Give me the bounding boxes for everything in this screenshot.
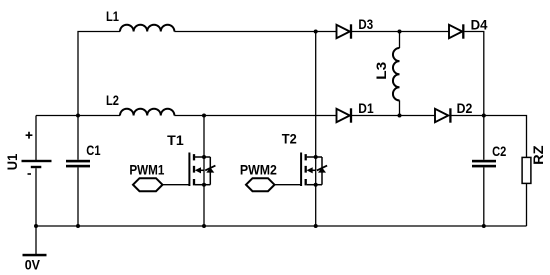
svg-text:D2: D2: [457, 101, 473, 116]
node T2 drain on top rail: [314, 30, 318, 34]
diode D2: [435, 101, 473, 123]
port PWM2: [240, 163, 301, 192]
svg-text:PWM1: PWM1: [129, 163, 164, 178]
svg-text:T1: T1: [167, 133, 184, 148]
wire top-left from L1 down to input node: [78, 32, 120, 116]
node output junction: [482, 114, 486, 118]
node bottom C1: [76, 224, 80, 228]
capacitor C2: [472, 116, 507, 227]
svg-text:U1: U1: [5, 153, 20, 170]
port PWM1: [129, 163, 189, 192]
inductor L3: [374, 32, 400, 116]
wire battery to input node: [36, 115, 78, 117]
wire input node to L2: [78, 115, 120, 117]
svg-text:L1: L1: [106, 9, 119, 24]
svg-text:L2: L2: [106, 93, 119, 108]
diode D4: [449, 17, 488, 38]
wire D3 to L3 top node: [352, 31, 449, 33]
wire L1 to D3 node: [174, 31, 336, 33]
svg-text:L3: L3: [374, 61, 389, 79]
wire D1 to L3 bottom node: [352, 115, 435, 117]
wire D4 to output node: [465, 32, 484, 116]
svg-text:T2: T2: [282, 131, 297, 146]
svg-text:C2: C2: [492, 144, 506, 159]
capacitor C1: [66, 116, 101, 227]
wire L2 to D1: [174, 115, 336, 117]
inductor L1: [106, 9, 174, 32]
node L3 top: [398, 30, 402, 34]
node bottom C2: [482, 224, 486, 228]
svg-text:0V: 0V: [25, 257, 41, 272]
node bottom T1: [202, 224, 206, 228]
battery U1: [5, 116, 51, 227]
diode D3: [337, 17, 374, 39]
wire D2 to output node: [452, 115, 484, 117]
svg-text:D3: D3: [358, 17, 373, 32]
wire output node to RZ: [484, 116, 527, 158]
transistor T2: [282, 32, 327, 227]
transistor T1: [167, 116, 215, 227]
ground 0V: [23, 226, 47, 272]
svg-text:C1: C1: [86, 143, 100, 158]
svg-text:D1: D1: [358, 101, 374, 116]
diode D1: [337, 101, 374, 123]
node T1 drain: [202, 114, 206, 118]
node bottom T2: [314, 224, 318, 228]
svg-text:PWM2: PWM2: [240, 163, 277, 178]
svg-text:RZ: RZ: [531, 145, 546, 165]
resistor RZ: [522, 145, 546, 226]
wire bottom rail: [36, 225, 527, 227]
node L3 bottom: [398, 114, 402, 118]
inductor L2: [106, 93, 174, 116]
svg-text:D4: D4: [471, 17, 488, 32]
node bottom battery: [34, 224, 38, 228]
node input junction: [76, 114, 80, 118]
